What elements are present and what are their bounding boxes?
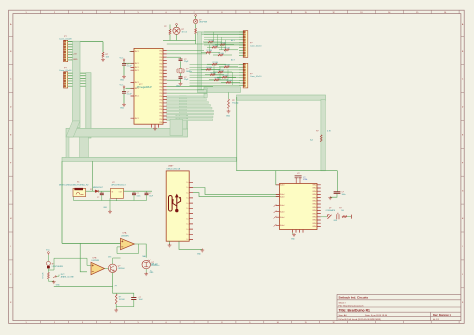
svg-text:R? 180: R? 180: [207, 67, 213, 69]
USB right pins: [189, 182, 193, 239]
svg-text:4: 4: [110, 12, 111, 14]
wire LED to rail: [176, 34, 178, 40]
svg-text:D+: D+: [187, 213, 189, 215]
wire band B riser to MCU pins: [176, 114, 188, 129]
svg-text:R? 180: R? 180: [219, 70, 225, 72]
svg-text:12: 12: [332, 12, 334, 14]
svg-text:PB0: PB0: [159, 80, 162, 82]
svg-text:D+: D+: [187, 203, 189, 205]
svg-text:13: 13: [360, 12, 362, 14]
IC2 left pin slashes: [274, 204, 277, 226]
svg-text:7: 7: [193, 322, 194, 324]
band B to E link: [66, 137, 69, 158]
svg-text:Pull-Up: Pull-Up: [232, 102, 238, 104]
svg-text:GND: GND: [120, 108, 125, 110]
svg-text:0.1uF: 0.1uF: [127, 94, 133, 96]
svg-text:GND: GND: [226, 116, 231, 118]
crystal Y 16MHz: [179, 69, 182, 73]
capacitor C bulk near jack: [98, 190, 110, 192]
svg-text:15: 15: [416, 12, 418, 14]
op-amp U?A LM358: [121, 238, 135, 249]
svg-text:14: 14: [388, 12, 390, 14]
svg-text:J: J: [462, 274, 463, 276]
USB connector component USB1: [166, 171, 189, 241]
svg-text:PB0: PB0: [159, 99, 162, 101]
capacitor C 10uF RC: [131, 298, 136, 300]
svg-text:USB-2.0-MicroB: USB-2.0-MicroB: [167, 167, 181, 170]
svg-text:Sheet: /: Sheet: /: [339, 301, 347, 304]
MCU data bus stripes: [167, 96, 205, 98]
svg-text:R? 180: R? 180: [221, 42, 227, 44]
USB shell outline: [169, 196, 173, 212]
wire I2C cap drop: [336, 171, 338, 192]
diode D MBR0520LT: [86, 190, 96, 192]
wire net I2C to IC2: [236, 170, 337, 172]
LED LEDPWR top right: [195, 15, 197, 17]
svg-text:6: 6: [166, 322, 167, 324]
svg-text:Date: 5 jun 2015 19:30: Date: 5 jun 2015 19:30: [365, 314, 388, 317]
svg-text:PB0: PB0: [159, 70, 162, 72]
svg-text:PB0: PB0: [159, 83, 162, 85]
crystal above IC2: [295, 178, 297, 184]
svg-text:10uF: 10uF: [149, 195, 153, 197]
wire band B horizontal under MCU: [66, 128, 188, 137]
wire band E horizontal mid sheet: [62, 157, 237, 161]
wire op-amp input rail: [62, 242, 121, 244]
svg-text:USB?: USB?: [168, 166, 174, 168]
IC2 right pins: [317, 185, 321, 227]
svg-text:XTAL: XTAL: [303, 178, 308, 181]
svg-text:PB0: PB0: [159, 73, 162, 75]
IC1 left pin stubs: [131, 52, 135, 119]
op-amp U?A fb wire: [117, 244, 139, 254]
P4 field wires: [190, 65, 240, 86]
svg-text:A4 9: A4 9: [231, 39, 235, 42]
svg-text:KiCad E.D.A. kicad (2015-05-3: KiCad E.D.A. kicad (2015-05-30 BZR 5693): [339, 318, 382, 321]
svg-text:MICRO-USB-B-SMD-PCBTAIL_R2: MICRO-USB-B-SMD-PCBTAIL_R2: [59, 184, 88, 187]
svg-text:R? 180: R? 180: [225, 48, 231, 50]
svg-text:→ GND: → GND: [71, 59, 79, 61]
field link wires: [204, 32, 239, 45]
svg-text:11: 11: [305, 12, 307, 14]
wire U?B in from sensor: [87, 264, 91, 266]
pot RV?: [53, 276, 56, 278]
svg-text:R? 180: R? 180: [213, 45, 219, 47]
svg-text:1K/10K: 1K/10K: [119, 299, 126, 301]
svg-text:File: BearDuino-kicad.sch: File: BearDuino-kicad.sch: [339, 304, 365, 307]
svg-text:1: 1: [25, 322, 26, 324]
op MCU wires left side: [130, 51, 135, 53]
connector P3 Conn_01x10: [243, 31, 248, 58]
svg-text:R? 180: R? 180: [223, 75, 229, 77]
svg-text:D+: D+: [187, 208, 189, 210]
resistor R 4.7K on I2C line: [320, 135, 322, 142]
svg-text:7: 7: [193, 12, 194, 14]
svg-text:D?: D?: [90, 189, 92, 191]
svg-text:2N3904: 2N3904: [118, 268, 125, 270]
svg-text:GND: GND: [176, 86, 181, 88]
svg-text:D+: D+: [187, 224, 189, 226]
svg-text:CONSHAPE: CONSHAPE: [326, 209, 336, 212]
svg-text:D+: D+: [187, 192, 189, 194]
I2C vertical pair to IC2: [321, 100, 325, 171]
svg-text:PB0: PB0: [159, 116, 162, 118]
svg-text:→ +5V: → +5V: [71, 54, 78, 56]
svg-text:R?: R?: [164, 26, 166, 28]
svg-text:R? 180: R? 180: [213, 62, 219, 64]
svg-text:AP1117E50G-13: AP1117E50G-13: [112, 184, 126, 187]
IC1 ATmega328-P MCU: [134, 48, 163, 124]
wire rail y44: [167, 43, 243, 45]
op-amp U?A output wire: [135, 244, 147, 258]
LED DPWR circle: [173, 27, 180, 34]
svg-text:D+: D+: [187, 218, 189, 220]
wire opampB to Q: [105, 268, 109, 270]
svg-text:PB0: PB0: [159, 106, 162, 108]
connector P4 Conn_01x10: [243, 63, 248, 88]
wire band E drop to analog: [61, 161, 63, 243]
LDR R?: [47, 255, 49, 261]
svg-text:Setback Ind. Circuits: Setback Ind. Circuits: [339, 295, 369, 299]
svg-text:PB0: PB0: [159, 76, 162, 78]
band A to B miter: [66, 121, 80, 137]
svg-text:100: 100: [341, 210, 344, 212]
svg-text:OUT: OUT: [119, 191, 122, 193]
svg-text:U?A: U?A: [123, 232, 128, 235]
svg-text:PB0: PB0: [159, 112, 162, 114]
svg-text:ATARI_CLONE: ATARI_CLONE: [61, 275, 75, 278]
svg-text:D+: D+: [187, 187, 189, 189]
svg-text:PB0: PB0: [159, 54, 162, 56]
svg-text:5V3: 5V3: [108, 256, 111, 258]
regulator IC L7805: [111, 188, 124, 198]
divider resistor R 10K: [47, 268, 49, 272]
gnd below R pulldown: [101, 58, 105, 62]
title block: [337, 294, 461, 321]
svg-text:R? 180: R? 180: [211, 72, 217, 74]
capacitor C 100n at IC2: [334, 192, 341, 194]
svg-text:R? 180: R? 180: [215, 78, 221, 80]
IC2 left pins: [276, 185, 280, 226]
svg-text:LDR/THERM: LDR/THERM: [52, 266, 63, 268]
svg-text:Rev: Revision 1: Rev: Revision 1: [433, 314, 451, 317]
svg-text:PB0: PB0: [159, 93, 162, 95]
svg-text:2: 2: [54, 322, 55, 324]
wire Q collector up: [113, 258, 121, 264]
field vertical jogs: [210, 32, 233, 85]
svg-text:5: 5: [138, 322, 139, 324]
svg-text:10: 10: [277, 322, 279, 324]
RC filter loop: [113, 289, 134, 297]
svg-text:Conn_01x10: Conn_01x10: [250, 76, 262, 78]
svg-text:A5 9: A5 9: [231, 59, 235, 62]
svg-text:R?: R?: [316, 131, 318, 133]
capacitor C 22pF lower: [179, 77, 183, 79]
svg-text:Title: BearDuino R1: Title: BearDuino R1: [339, 308, 371, 312]
VCC symbol LED top: [176, 24, 178, 26]
svg-text:PB0: PB0: [159, 109, 162, 111]
IC1 right pin stubs: [163, 51, 167, 123]
svg-text:1K 0.5: 1K 0.5: [182, 32, 187, 34]
gnd rail analog: [54, 286, 113, 288]
svg-text:4: 4: [110, 322, 111, 324]
svg-text:9: 9: [249, 322, 250, 324]
resistor R LEDPWR: [195, 24, 197, 29]
svg-text:LM358N: LM358N: [92, 260, 100, 262]
svg-text:Conn_01x10: Conn_01x10: [250, 45, 262, 47]
IC1 bottom pins gnd: [152, 124, 159, 127]
svg-text:Conn_01x06: Conn_01x06: [59, 70, 72, 72]
data bus riser below stripes: [170, 119, 183, 135]
svg-text:R? 180: R? 180: [225, 65, 231, 67]
IC1 wires right to resistor field: [167, 51, 213, 94]
svg-text:P?: P?: [115, 286, 117, 288]
svg-text:PB0: PB0: [159, 122, 162, 124]
svg-text:11: 11: [305, 322, 307, 324]
svg-text:PB0: PB0: [159, 50, 162, 52]
svg-text:R? 180: R? 180: [227, 80, 233, 82]
svg-text:PB0: PB0: [159, 86, 162, 88]
svg-text:1: 1: [25, 12, 26, 14]
divider tap wire: [48, 258, 87, 270]
svg-text:R? 180: R? 180: [209, 40, 215, 42]
svg-text:16: 16: [444, 12, 446, 14]
svg-text:3: 3: [82, 12, 83, 14]
frame ticks left/right: [9, 37, 465, 288]
wire to power rail: [92, 161, 94, 191]
phototransistor Q?: [108, 264, 116, 272]
svg-text:MBR0520LT: MBR0520LT: [93, 187, 104, 189]
svg-text:LEDPWR: LEDPWR: [199, 22, 208, 24]
svg-text:Id: 1/1: Id: 1/1: [433, 319, 440, 321]
svg-text:8: 8: [221, 322, 222, 324]
IR subcircuit right of IC2: [321, 216, 327, 218]
power jack X1: [73, 188, 86, 196]
connector P1 Conn_01x08: [64, 40, 68, 61]
svg-text:PB0: PB0: [159, 96, 162, 98]
regulator gnd: [116, 198, 118, 201]
svg-text:12: 12: [332, 322, 334, 324]
svg-text:D+: D+: [187, 229, 189, 231]
svg-text:R? 10K: R? 10K: [42, 272, 44, 279]
wire SDA long vertical: [236, 97, 238, 171]
series resistor field for P3: [208, 41, 213, 43]
svg-text:D+: D+: [187, 234, 189, 236]
svg-text:100n: 100n: [137, 195, 141, 197]
wire band C vertical from P2: [86, 73, 91, 138]
svg-text:D+: D+: [187, 182, 189, 184]
I2C band steps to the right: [204, 87, 241, 93]
MCU data bus riser column: [180, 96, 187, 129]
resistor R pulldown 10K top-left: [68, 41, 103, 43]
svg-text:Conn_01x08: Conn_01x08: [59, 39, 72, 41]
svg-text:PB0: PB0: [159, 119, 162, 121]
wire band A vertical from P1: [73, 41, 80, 127]
op-amp U?B LM358: [91, 262, 105, 274]
svg-text:PB0: PB0: [159, 90, 162, 92]
wire LED to gnd: [145, 269, 147, 274]
series resistor field for P4: [212, 63, 217, 65]
svg-text:100n: 100n: [342, 194, 346, 196]
USB bottom pins/gnd: [169, 241, 171, 244]
svg-text:9: 9: [249, 12, 250, 14]
IC2 bottom pins + gnd: [293, 230, 304, 233]
resistor R pull-up under P4: [228, 99, 230, 109]
capacitor C 100n reg out: [124, 190, 153, 192]
svg-text:5: 5: [138, 12, 139, 14]
resistor R LED series: [169, 29, 171, 34]
svg-text:PB0: PB0: [159, 103, 162, 105]
svg-text:PB0: PB0: [159, 60, 162, 62]
USB wires to IC2 (serial): [193, 188, 280, 195]
connector P2 Conn_01x06: [64, 72, 68, 88]
svg-text:Size: A4: Size: A4: [339, 314, 348, 317]
svg-text:R? 180: R? 180: [207, 50, 213, 52]
svg-text:C?: C?: [97, 197, 99, 199]
svg-text:8: 8: [221, 12, 222, 14]
svg-text:PB0: PB0: [159, 57, 162, 59]
wire Q emitter down: [112, 273, 114, 290]
svg-text:PB0: PB0: [159, 63, 162, 65]
LDR sensor divider: [48, 252, 50, 254]
wire junction to lower stage: [80, 243, 87, 271]
svg-text:6: 6: [166, 12, 167, 14]
power gnd rail: [73, 197, 75, 201]
USB trident symbol: [172, 195, 181, 212]
svg-text:J: J: [10, 274, 11, 276]
svg-text:D+: D+: [187, 198, 189, 200]
IR LED D?: [142, 260, 150, 268]
decoupling cap C 100nF upper: [123, 62, 125, 64]
capacitor C 10uF reg out: [146, 191, 148, 193]
svg-text:10: 10: [277, 12, 279, 14]
capacitor C 22pF upper: [167, 56, 181, 58]
svg-text:R? 180: R? 180: [219, 53, 225, 55]
svg-text:LM358N: LM358N: [121, 235, 129, 237]
decoupling cap C 100nF lower: [123, 88, 125, 91]
divider bottom gnd: [48, 279, 53, 281]
svg-text:A-5: A-5: [310, 139, 313, 142]
svg-text:D+: D+: [187, 239, 189, 241]
svg-text:GND: GND: [120, 80, 125, 82]
IC2 MCP23017: [280, 184, 318, 230]
svg-text:2: 2: [54, 12, 55, 14]
band C-E fat link: [80, 137, 89, 158]
svg-text:PB0: PB0: [159, 67, 162, 69]
VCC band top to P3: [198, 32, 244, 35]
svg-text:3: 3: [82, 322, 83, 324]
svg-text:16MHz: 16MHz: [186, 71, 192, 73]
